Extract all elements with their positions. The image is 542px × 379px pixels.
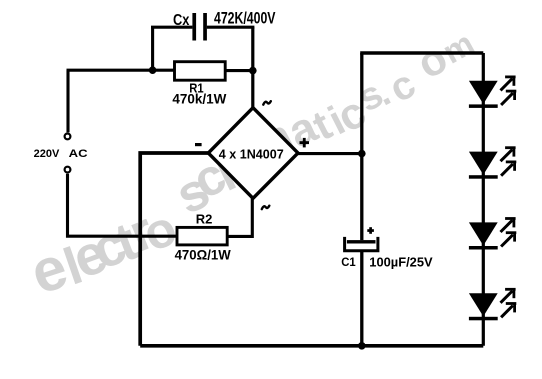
svg-text:220V: 220V	[34, 148, 60, 160]
capacitor Cx plate left	[192, 13, 196, 41]
wire: Cx top horizontal right	[207, 26, 255, 29]
terminal circle top (220V AC)	[65, 134, 71, 140]
label ~ bottom	[262, 206, 270, 209]
junction dot right of R1	[249, 67, 257, 75]
junction dot bottom rail	[358, 342, 366, 350]
junction dot left of R1	[149, 66, 157, 74]
wire: LED column vertical	[482, 53, 485, 346]
LED D4	[469, 288, 516, 320]
wire: C1 bottom to bottom rail	[360, 251, 363, 346]
wire: Cx branch right vertical down to junction	[251, 27, 254, 70]
label plus (bridge)	[300, 141, 310, 144]
svg-text:470Ω/1W: 470Ω/1W	[175, 247, 232, 263]
LED D2	[469, 147, 516, 179]
label plus (C1)	[367, 229, 374, 232]
wire: bottom AC terminal down and right to R2	[68, 174, 178, 237]
wire: + rail vertical (top rail down to C1)	[360, 53, 363, 240]
svg-text:Cx: Cx	[173, 12, 190, 29]
junction dot at + output	[358, 150, 366, 158]
wire: bridge left vertex to left rail down to bottom rail	[140, 153, 208, 346]
wire: top horizontal to R1	[67, 69, 175, 72]
capacitor C1 top plate	[347, 240, 376, 243]
svg-text:4 x 1N4007: 4 x 1N4007	[219, 146, 284, 161]
wire: bridge right vertex to junction	[298, 152, 362, 155]
wire: R1 right to junction	[225, 69, 254, 72]
svg-text:470k/1W: 470k/1W	[172, 91, 227, 107]
label minus	[195, 143, 202, 146]
svg-text:AC: AC	[69, 148, 88, 160]
capacitor C1 cup	[345, 237, 378, 251]
LED D3	[469, 218, 516, 250]
wire: Cx top horizontal left	[151, 26, 192, 29]
LED D1	[469, 76, 516, 108]
watermark electroschematics.com	[23, 24, 480, 307]
resistor R2	[177, 227, 227, 245]
bridge rectifier U1 (4 x 1N4007)	[208, 108, 298, 199]
capacitor Cx plate right	[203, 13, 207, 41]
label ~ top	[263, 101, 271, 104]
svg-text:C1: C1	[341, 255, 356, 269]
svg-text:472K/400V: 472K/400V	[214, 9, 276, 27]
resistor R1	[175, 62, 226, 80]
wire: Cx branch left vertical	[151, 27, 154, 70]
wire: bottom rail horizontal	[140, 344, 483, 348]
wire: top rail horizontal	[360, 51, 483, 55]
wire: bridge bottom vertex down then left to R2	[227, 197, 252, 236]
wire: junction down to bridge top	[251, 71, 254, 109]
svg-text:100µF/25V: 100µF/25V	[369, 255, 433, 270]
terminal circle bottom (220V AC)	[65, 167, 71, 173]
wire: top-left vertical from AC terminal up	[66, 70, 69, 132]
svg-text:R2: R2	[196, 212, 213, 227]
